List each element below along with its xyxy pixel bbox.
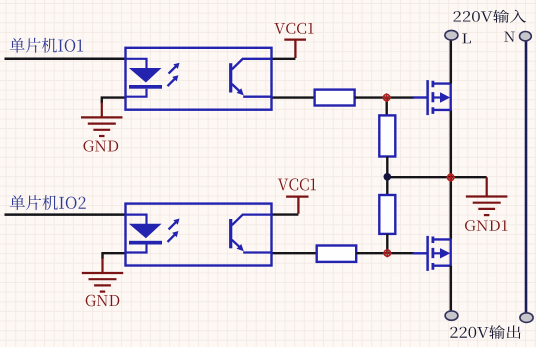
- label 单片机IO2: [10, 195, 86, 210]
- MOSFET Q1 gate plate: [426, 80, 429, 115]
- optocoupler U2 emission arrow 2: [168, 234, 176, 242]
- wire R2 to Q2 gate: [356, 252, 414, 254]
- label N: [504, 32, 514, 42]
- wire Q1 drain to terminal L: [450, 40, 453, 84]
- wire Q1 source to Q2 drain: [450, 110, 453, 240]
- resistor R2: [317, 246, 357, 262]
- terminal pad L (220V output): [445, 311, 458, 320]
- wire R1 to Q1 gate: [355, 96, 414, 98]
- label VCC1 (top): [274, 23, 313, 34]
- wire U1 emitter to resistor R1: [272, 96, 315, 98]
- MOSFET Q1 drain stub: [434, 82, 451, 84]
- MOSFET Q2 drain-source rail: [450, 238, 452, 266]
- MOSFET Q1 channel segments: [431, 81, 434, 114]
- MOSFET Q2 drain stub: [434, 238, 451, 240]
- optocoupler U2 phototransistor base bar: [229, 219, 232, 248]
- wire U2 emitter to resistor R2: [272, 252, 317, 254]
- optocoupler U1 emission arrow 2: [168, 79, 176, 87]
- terminal pad L (220V input): [445, 30, 458, 40]
- terminal pad N (220V output): [520, 313, 533, 323]
- wire R4 to node C: [386, 234, 388, 253]
- optocoupler U2 body: [126, 204, 272, 266]
- MOSFET Q2 source stub: [434, 265, 451, 267]
- optocoupler U1 LED cathode lead: [126, 89, 147, 97]
- ground symbol GND1: [466, 195, 508, 197]
- label L: [462, 34, 471, 44]
- resistor R1: [315, 90, 355, 106]
- wire from 单片机IO1 label to U1 anode: [5, 58, 126, 61]
- MOSFET Q1 source stub: [434, 109, 451, 111]
- optocoupler U1 phototransistor base bar: [229, 63, 232, 92]
- optocoupler U2 phototransistor collector: [232, 215, 272, 226]
- wire node to resistor R3: [386, 98, 388, 116]
- wire U2 collector to VCC1: [272, 213, 299, 215]
- power symbol VCC1 (bottom): [286, 197, 308, 214]
- resistor R3: [379, 115, 395, 156]
- optocoupler U1 LED cathode bar: [129, 85, 162, 89]
- optocoupler U1 body: [126, 48, 272, 110]
- junction node A (R1/R3/Q1 gate): [383, 94, 389, 100]
- MOSFET Q2 gate lead: [413, 252, 427, 254]
- wire R3 to node B: [386, 157, 388, 177]
- power symbol VCC1 (top): [284, 40, 306, 58]
- wire U1 cathode to GND: [102, 98, 126, 104]
- MOSFET Q1 drain-source rail: [450, 83, 452, 112]
- optocoupler U1 LED anode lead: [126, 59, 147, 68]
- label 220V输入: [454, 10, 527, 23]
- ground symbol GND (U1): [81, 116, 123, 118]
- wire from 单片机IO2 label to U2 anode: [5, 213, 126, 216]
- wire Q2 source to output terminal: [450, 266, 453, 312]
- wire node B to resistor R4: [386, 177, 388, 195]
- MOSFET Q2 channel segments: [431, 237, 434, 270]
- optocoupler U2 LED cathode bar: [129, 241, 162, 245]
- optocoupler U1 phototransistor emitter: [232, 84, 240, 92]
- label 220V输出: [450, 325, 520, 339]
- terminal pad N (220V input): [520, 32, 532, 41]
- wire GND1 stem: [486, 177, 488, 196]
- junction node C (R2/R4/Q2 gate): [384, 250, 390, 256]
- label GND1: [465, 220, 508, 231]
- optocoupler U2 LED cathode lead: [126, 245, 147, 253]
- ground symbol GND (U2): [82, 272, 123, 274]
- MOSFET Q2 gate plate: [426, 236, 429, 271]
- optocoupler U1 phototransistor collector: [232, 59, 272, 70]
- optocoupler U1 emission arrow 1: [169, 66, 177, 74]
- MOSFET Q2 bulk arrow: [434, 252, 441, 254]
- label GND (U1): [83, 140, 118, 151]
- resistor R4: [379, 195, 395, 234]
- label VCC1 (bottom): [278, 178, 316, 190]
- wire node B to GND1 corner: [387, 176, 486, 178]
- optocoupler U2 emission arrow 1: [169, 222, 177, 230]
- wire terminal N to output terminal: [525, 41, 528, 314]
- MOSFET Q1 bulk arrow: [434, 96, 441, 98]
- MOSFET Q1 gate lead: [413, 96, 427, 98]
- label 单片机IO1: [10, 38, 83, 53]
- optocoupler U2 phototransistor emitter: [232, 240, 240, 248]
- optocoupler U2 LED anode lead: [126, 215, 147, 224]
- label GND (U2): [86, 295, 120, 307]
- optocoupler U2 LED triangle: [129, 224, 162, 239]
- junction dot node B: [384, 173, 392, 181]
- wire U2 cathode to GND: [103, 253, 126, 259]
- wire U1 collector to VCC1: [272, 58, 296, 60]
- optocoupler U1 LED triangle: [129, 68, 162, 83]
